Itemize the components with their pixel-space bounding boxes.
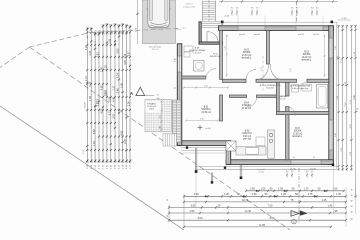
svg-text:±0.00: ±0.00 [205, 128, 211, 130]
svg-text:3.63: 3.63 [93, 129, 96, 134]
svg-text:1.25: 1.25 [105, 65, 108, 70]
svg-text:3.53: 3.53 [109, 96, 112, 101]
svg-text:5.24: 5.24 [117, 73, 120, 78]
svg-text:3.00: 3.00 [198, 217, 203, 220]
svg-text:2.50: 2.50 [250, 188, 255, 191]
svg-text:1.20: 1.20 [304, 188, 309, 191]
svg-text:3.55: 3.55 [191, 204, 196, 207]
svg-text:11.30: 11.30 [245, 210, 252, 213]
svg-text:2.60: 2.60 [117, 48, 120, 53]
svg-text:1.05: 1.05 [278, 188, 283, 191]
svg-text:1.5 m2: 1.5 m2 [280, 98, 286, 100]
svg-text:-1.05: -1.05 [342, 18, 348, 20]
svg-text:14.50 m2: 14.50 m2 [242, 55, 252, 57]
svg-text:+0.1: +0.1 [182, 28, 186, 30]
svg-text:90: 90 [351, 195, 353, 197]
svg-text:1.45: 1.45 [322, 199, 327, 202]
svg-text:11.55: 11.55 [259, 224, 266, 227]
svg-text:pni 90: pni 90 [298, 34, 305, 36]
svg-text:90: 90 [236, 7, 238, 9]
svg-text:4.85: 4.85 [124, 59, 127, 64]
svg-text:90: 90 [316, 7, 318, 9]
svg-text:3.70: 3.70 [225, 46, 227, 50]
svg-text:18.70: 18.70 [85, 101, 87, 107]
svg-text:8.00: 8.00 [270, 217, 275, 220]
svg-text:4.05 m2: 4.05 m2 [152, 49, 159, 51]
svg-text:4.50: 4.50 [204, 85, 208, 87]
svg-text:56: 56 [351, 219, 353, 221]
svg-text:4.56: 4.56 [101, 85, 104, 90]
svg-text:2.53: 2.53 [105, 89, 108, 94]
svg-text:+0.05: +0.05 [224, 16, 230, 18]
svg-text:3.90: 3.90 [194, 193, 199, 196]
svg-text:B 07: B 07 [295, 128, 300, 130]
svg-text:90: 90 [251, 7, 253, 9]
svg-text:2.46: 2.46 [117, 88, 120, 93]
svg-text:1.05: 1.05 [224, 193, 229, 196]
svg-text:B 01: B 01 [204, 107, 209, 109]
svg-text:4.60 m2 gres lap: 4.60 m2 gres lap [292, 88, 309, 90]
svg-text:5.45: 5.45 [120, 82, 123, 87]
svg-text:240: 240 [160, 126, 162, 129]
svg-text:3.92: 3.92 [113, 113, 116, 118]
svg-text:90: 90 [231, 7, 233, 9]
svg-text:B 04: B 04 [244, 103, 249, 105]
svg-text:pni 90: pni 90 [254, 34, 261, 36]
svg-text:30: 30 [351, 200, 353, 202]
svg-text:2.57: 2.57 [97, 101, 100, 106]
svg-text:2.10: 2.10 [261, 67, 263, 71]
svg-text:pni 90: pni 90 [313, 34, 320, 36]
svg-text:70: 70 [95, 41, 97, 43]
svg-text:95: 95 [351, 206, 353, 208]
svg-text:90: 90 [291, 171, 293, 173]
svg-text:B 02: B 02 [244, 50, 249, 52]
svg-text:2.20: 2.20 [124, 138, 127, 143]
svg-text:1.81: 1.81 [109, 38, 112, 43]
svg-text:90: 90 [313, 157, 315, 159]
svg-text:90: 90 [291, 7, 293, 9]
svg-text:90: 90 [293, 157, 295, 159]
svg-text:4.80: 4.80 [120, 130, 123, 135]
svg-text:2.40: 2.40 [335, 133, 337, 137]
svg-text:90: 90 [311, 171, 313, 173]
svg-text:2.40: 2.40 [174, 58, 176, 62]
svg-text:90: 90 [87, 36, 89, 38]
svg-text:24.50 m2: 24.50 m2 [201, 112, 211, 114]
svg-text:1.81: 1.81 [93, 141, 96, 146]
svg-text:90: 90 [286, 171, 288, 173]
svg-text:90: 90 [256, 7, 258, 9]
svg-text:1.17: 1.17 [113, 85, 116, 90]
svg-text:1.20: 1.20 [281, 193, 286, 196]
svg-text:30: 30 [167, 199, 169, 201]
svg-text:2.10: 2.10 [290, 68, 292, 72]
svg-text:3.26: 3.26 [128, 101, 131, 106]
svg-text:30: 30 [167, 215, 169, 217]
svg-text:90: 90 [306, 171, 308, 173]
svg-text:4.60: 4.60 [200, 118, 204, 120]
svg-text:2.90: 2.90 [89, 50, 92, 55]
svg-text:12.00 m2: 12.00 m2 [147, 106, 157, 108]
svg-text:1.50: 1.50 [335, 46, 337, 50]
svg-text:30: 30 [351, 212, 353, 214]
svg-text:16.20 m2: 16.20 m2 [302, 57, 312, 59]
svg-text:1.82: 1.82 [89, 95, 92, 100]
svg-text:7.00: 7.00 [268, 204, 273, 207]
svg-text:4.46: 4.46 [113, 97, 116, 102]
svg-text:1.75: 1.75 [308, 193, 313, 196]
svg-text:5.20 m2: 5.20 m2 [193, 53, 202, 55]
svg-text:6.10 m2: 6.10 m2 [266, 87, 274, 89]
svg-text:1.05: 1.05 [336, 193, 341, 196]
svg-text:B 06: B 06 [245, 131, 250, 133]
svg-text:pni 90: pni 90 [239, 34, 246, 36]
svg-text:1.45: 1.45 [328, 204, 333, 207]
svg-text:8.60 m2: 8.60 m2 [243, 136, 252, 138]
svg-text:1.05: 1.05 [261, 188, 266, 191]
svg-text:2.50: 2.50 [190, 210, 195, 213]
svg-text:12.80 m2: 12.80 m2 [293, 133, 303, 135]
svg-text:2.50: 2.50 [252, 193, 257, 196]
svg-text:240: 240 [157, 98, 160, 100]
svg-text:30: 30 [351, 189, 353, 191]
svg-text:ETKEZO: ETKEZO [242, 105, 251, 107]
svg-text:60/120: 60/120 [258, 171, 264, 173]
svg-text:10.70: 10.70 [242, 199, 249, 202]
svg-text:1.74: 1.74 [85, 76, 88, 81]
svg-text:pni 90: pni 90 [310, 169, 317, 171]
svg-text:90: 90 [311, 7, 313, 9]
svg-text:215: 215 [160, 115, 162, 118]
svg-text:11.20 m2: 11.20 m2 [242, 108, 252, 110]
svg-text:90: 90 [174, 87, 176, 89]
svg-text:SZELFOGO: SZELFOGO [210, 56, 222, 58]
svg-text:pni 90: pni 90 [290, 169, 297, 171]
svg-text:B 03: B 03 [304, 52, 309, 54]
svg-text:90: 90 [157, 94, 159, 96]
svg-text:5.57: 5.57 [128, 51, 131, 56]
